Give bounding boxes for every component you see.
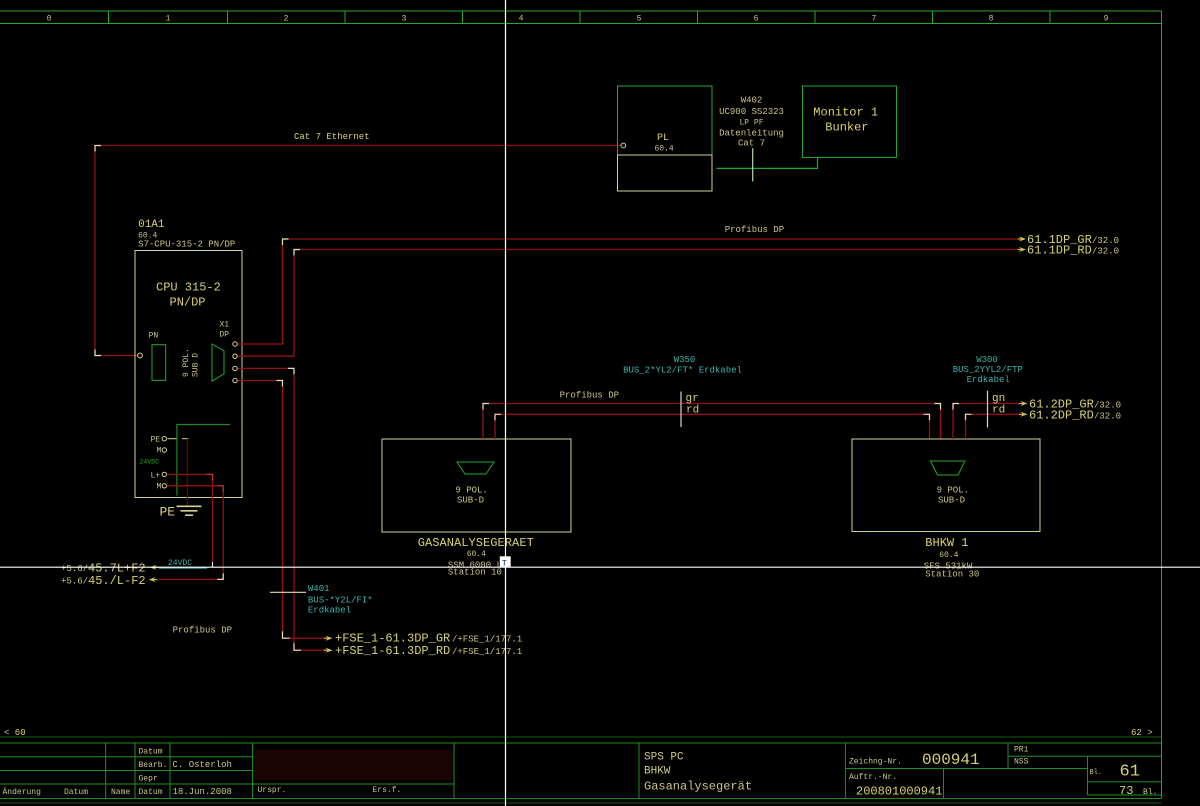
- cable W350 label: [623, 355, 742, 376]
- svg-text:/+FSE_1/177.1: /+FSE_1/177.1: [452, 635, 522, 645]
- svg-text:UC900 SS2323: UC900 SS2323: [719, 107, 784, 117]
- arrow 61.1DP_RD: [1019, 247, 1026, 252]
- pin PL ethernet port: [621, 143, 626, 148]
- svg-text:PN: PN: [149, 332, 159, 341]
- arrow L+F2 (left): [150, 565, 157, 570]
- svg-text:8: 8: [989, 15, 994, 24]
- title block grid lines: [0, 743, 1162, 799]
- svg-text:6: 6: [754, 15, 759, 24]
- corner mark GAS gr bend: [483, 404, 489, 410]
- svg-text:LP PF: LP PF: [739, 119, 763, 128]
- cable W401 label block: [308, 584, 373, 616]
- svg-text:Ers.f.: Ers.f.: [373, 786, 402, 795]
- svg-text:Bearb.: Bearb.: [139, 761, 168, 770]
- wire PE internal (green): [177, 425, 230, 496]
- corner mark FSE RD bend: [294, 643, 301, 650]
- svg-text:Erdkabel: Erdkabel: [967, 375, 1010, 385]
- svg-text:Auftr.-Nr.: Auftr.-Nr.: [849, 773, 897, 782]
- wire L+ to 24VDC rail (red): [167, 474, 213, 562]
- svg-text:Urspr.: Urspr.: [258, 786, 287, 795]
- arrow FSE GR: [326, 636, 333, 641]
- wire BHKW pin3 to 61.2DP_GR (red): [953, 404, 1020, 440]
- svg-text:PL: PL: [657, 133, 669, 144]
- corner mark M bottom bend: [217, 573, 223, 579]
- svg-text:Cat 7: Cat 7: [738, 139, 765, 149]
- title block highlighted cell: [255, 750, 452, 780]
- corner mark BHKW RD out bend: [966, 414, 972, 420]
- svg-text:4: 4: [519, 15, 524, 24]
- title block values left: [173, 760, 232, 797]
- svg-text:61: 61: [1120, 763, 1140, 782]
- svg-text:000941: 000941: [922, 751, 980, 769]
- corner mark BHKW GR out bend: [953, 404, 959, 410]
- svg-text:Name: Name: [111, 788, 130, 797]
- title block small labels left: [3, 748, 402, 798]
- svg-text:PE: PE: [160, 505, 176, 520]
- svg-text:S7-CPU-315-2 PN/DP: S7-CPU-315-2 PN/DP: [138, 240, 235, 250]
- svg-text:PR1: PR1: [1014, 746, 1029, 755]
- svg-text:W300: W300: [976, 355, 998, 365]
- svg-text:Profibus DP: Profibus DP: [560, 391, 619, 401]
- svg-text:+5.6/: +5.6/: [61, 577, 88, 587]
- svg-text:rd: rd: [686, 404, 699, 416]
- svg-text:Datenleitung: Datenleitung: [719, 129, 784, 139]
- svg-text:< 60: < 60: [4, 728, 26, 738]
- wire X1 pin1 to 61.1DP_GR (red): [238, 239, 1018, 344]
- pin X1 pin2: [233, 354, 237, 358]
- svg-text:18.Jun.2008: 18.Jun.2008: [173, 787, 232, 797]
- arrow L-F2 (left): [149, 577, 156, 582]
- svg-text:01A1: 01A1: [138, 219, 165, 231]
- wire X1 pin4 to FSE GR (red): [238, 381, 326, 639]
- svg-text:62 >: 62 >: [1131, 728, 1153, 738]
- svg-text:3: 3: [402, 15, 407, 24]
- svg-text:60.4: 60.4: [939, 551, 958, 560]
- corner mark FSE GR bend: [283, 631, 290, 638]
- corner mark GAS rd bend: [495, 414, 501, 420]
- svg-text:Bl.: Bl.: [1090, 769, 1103, 777]
- arrow 61.1DP_GR: [1019, 237, 1026, 242]
- wire M to L-F2 (red): [159, 486, 223, 580]
- wire Cat 7 Ethernet net (red): [95, 146, 620, 356]
- pin dash PE: [168, 438, 177, 440]
- wire monitor video cable (green): [717, 158, 818, 169]
- frame column numbers: [47, 15, 1109, 24]
- cable marker W401 tick: [270, 591, 306, 593]
- svg-text:M: M: [157, 483, 162, 492]
- device GASANALYSEGERAET box: [382, 439, 571, 532]
- cursor text block: [500, 556, 511, 566]
- svg-text:60.4: 60.4: [655, 145, 674, 154]
- svg-text:SPS PC: SPS PC: [644, 752, 684, 764]
- device Monitor 1 Bunker box: [803, 86, 897, 158]
- svg-text:9 POL.: 9 POL.: [455, 486, 487, 496]
- arrow FSE RD: [326, 648, 333, 653]
- wire X1 pin2 to 61.1DP_RD (red): [238, 250, 1018, 357]
- pin U1 PN port (left side): [138, 353, 143, 358]
- svg-text:Station 10: Station 10: [448, 568, 502, 578]
- corner mark pin1 bend: [283, 239, 289, 245]
- wire GAS pin2 rd to BHKW (red): [495, 414, 930, 439]
- cable marker W402 tick: [752, 148, 754, 181]
- component U1 CPU identifiers: [138, 219, 235, 250]
- device PL (panel PC) upper box: [618, 86, 713, 155]
- svg-text:2: 2: [284, 15, 289, 24]
- component U1 CPU 315-2 box: [135, 251, 242, 498]
- svg-text:Station 30: Station 30: [925, 570, 979, 580]
- pin X1 pin3: [233, 366, 237, 370]
- svg-text:Bl.: Bl.: [1143, 788, 1157, 797]
- svg-text:SUB D: SUB D: [192, 353, 201, 377]
- svg-text:W401: W401: [308, 584, 330, 594]
- corner mark pin3 bend: [288, 368, 294, 374]
- svg-text:T: T: [502, 559, 507, 569]
- corner mark pin2 bend: [294, 250, 300, 256]
- svg-text:CPU 315-2: CPU 315-2: [156, 281, 221, 295]
- svg-text:Bunker: Bunker: [825, 121, 868, 135]
- svg-text:Erdkabel: Erdkabel: [308, 606, 351, 616]
- svg-text:M: M: [157, 447, 162, 456]
- wire BHKW pin4 to 61.2DP_RD (red): [966, 414, 1021, 439]
- arrow 61.2DP_GR: [1021, 401, 1028, 406]
- corner mark M bend: [217, 486, 223, 492]
- svg-text:73: 73: [1119, 784, 1133, 798]
- svg-text:gn: gn: [992, 393, 1005, 405]
- svg-text:7: 7: [872, 15, 877, 24]
- svg-text:Zeichng-Nr.: Zeichng-Nr.: [849, 758, 902, 767]
- cursor crosshair vertical: [505, 0, 507, 806]
- svg-text:Profibus DP: Profibus DP: [173, 626, 232, 636]
- port PN connector rectangle: [152, 345, 166, 381]
- wire PE to ground (dim red): [186, 439, 188, 506]
- pin X1 pin4: [233, 378, 237, 382]
- pin X1 pin1: [233, 342, 237, 346]
- svg-text:Datum: Datum: [64, 788, 88, 797]
- svg-text:61.1DP_RD: 61.1DP_RD: [1027, 244, 1092, 258]
- port GAS SUB-D connector: [457, 462, 494, 474]
- svg-text:BUS_2*YL2/FT* Erdkabel: BUS_2*YL2/FT* Erdkabel: [623, 366, 742, 376]
- svg-text:DP: DP: [219, 331, 229, 340]
- port BHKW SUB-D connector: [931, 461, 966, 475]
- cable marker W300 tick: [987, 391, 989, 428]
- svg-text:PN/DP: PN/DP: [170, 296, 206, 310]
- svg-text:+5.6/: +5.6/: [61, 564, 88, 574]
- cable W300 label block: [953, 355, 1023, 385]
- cursor crosshair horizontal: [0, 566, 1200, 568]
- svg-text:/32.0: /32.0: [1094, 401, 1121, 411]
- corner mark Cat7 bend: [95, 146, 101, 152]
- svg-text:/32.0: /32.0: [1092, 247, 1119, 257]
- svg-text:/+FSE_1/177.1: /+FSE_1/177.1: [452, 647, 522, 657]
- svg-text:Änderung: Änderung: [3, 788, 42, 797]
- svg-text:NSS: NSS: [1014, 758, 1029, 767]
- svg-text:24VDC: 24VDC: [140, 459, 160, 466]
- svg-text:Datum: Datum: [139, 748, 163, 757]
- svg-text:W402: W402: [741, 96, 763, 106]
- svg-text:gr: gr: [686, 393, 699, 405]
- drawing frame top band: [0, 11, 1162, 24]
- svg-text:Cat 7 Ethernet: Cat 7 Ethernet: [294, 132, 370, 142]
- corner mark BHKW rd bend: [924, 414, 930, 420]
- svg-text:BHKW 1: BHKW 1: [925, 536, 968, 550]
- corner mark pin4 bend: [277, 381, 283, 387]
- svg-text:PE: PE: [151, 436, 161, 445]
- svg-text:9 POL.: 9 POL.: [937, 486, 969, 496]
- svg-text:45./L-F2: 45./L-F2: [88, 574, 146, 588]
- svg-text:W350: W350: [674, 355, 696, 365]
- frame right border: [1161, 11, 1163, 799]
- frame dim separator lines: [0, 737, 1162, 803]
- svg-text:200801000941: 200801000941: [856, 785, 942, 799]
- svg-text:Profibus DP: Profibus DP: [725, 225, 784, 235]
- svg-text:L+: L+: [151, 472, 161, 481]
- svg-text:BUS_2YYL2/FTP: BUS_2YYL2/FTP: [953, 365, 1023, 375]
- svg-text:BHKW: BHKW: [644, 766, 671, 778]
- corner mark Cat7 lower bend: [95, 350, 101, 356]
- svg-text:/32.0: /32.0: [1092, 236, 1119, 246]
- svg-text:Monitor 1: Monitor 1: [813, 106, 878, 120]
- port X1 D-sub connector: [212, 344, 224, 381]
- svg-text:C. Osterloh: C. Osterloh: [173, 760, 232, 770]
- svg-text:61.2DP_RD: 61.2DP_RD: [1029, 408, 1094, 422]
- arrow 61.2DP_RD: [1021, 412, 1028, 417]
- corner mark BHKW gr bend: [935, 404, 941, 410]
- cable W402 label block: [719, 96, 784, 149]
- svg-text:/32.0: /32.0: [1094, 411, 1121, 421]
- title block project titles: [644, 752, 752, 794]
- wire GAS pin1 gr to BHKW (red): [483, 404, 941, 440]
- wire X1 pin3 to FSE RD (red): [238, 368, 326, 650]
- svg-text:BUS-*Y2L/FI*: BUS-*Y2L/FI*: [308, 596, 373, 606]
- svg-text:9: 9: [1104, 15, 1109, 24]
- cable marker W350 tick: [680, 392, 682, 428]
- corner mark L+ bend: [207, 474, 213, 480]
- svg-text:Gepr: Gepr: [139, 775, 158, 784]
- svg-text:+FSE_1-61.3DP_RD: +FSE_1-61.3DP_RD: [335, 644, 450, 658]
- svg-text:SUB-D: SUB-D: [457, 496, 484, 506]
- svg-text:Gasanalysegerät: Gasanalysegerät: [644, 780, 752, 794]
- svg-text:Datum: Datum: [139, 788, 163, 797]
- wire 24VDC rail (teal): [159, 567, 207, 569]
- device PL lower box: [618, 155, 713, 191]
- svg-text:X1: X1: [219, 321, 229, 330]
- device BHKW 1 box: [852, 439, 1040, 532]
- svg-text:5: 5: [637, 15, 642, 24]
- svg-text:GASANALYSEGERAET: GASANALYSEGERAET: [418, 536, 534, 550]
- svg-text:SUB-D: SUB-D: [938, 496, 965, 506]
- svg-text:9 POL.: 9 POL.: [182, 348, 191, 377]
- svg-text:1: 1: [166, 15, 171, 24]
- svg-text:60.4: 60.4: [467, 550, 486, 559]
- svg-text:0: 0: [47, 15, 52, 24]
- svg-text:rd: rd: [992, 404, 1005, 416]
